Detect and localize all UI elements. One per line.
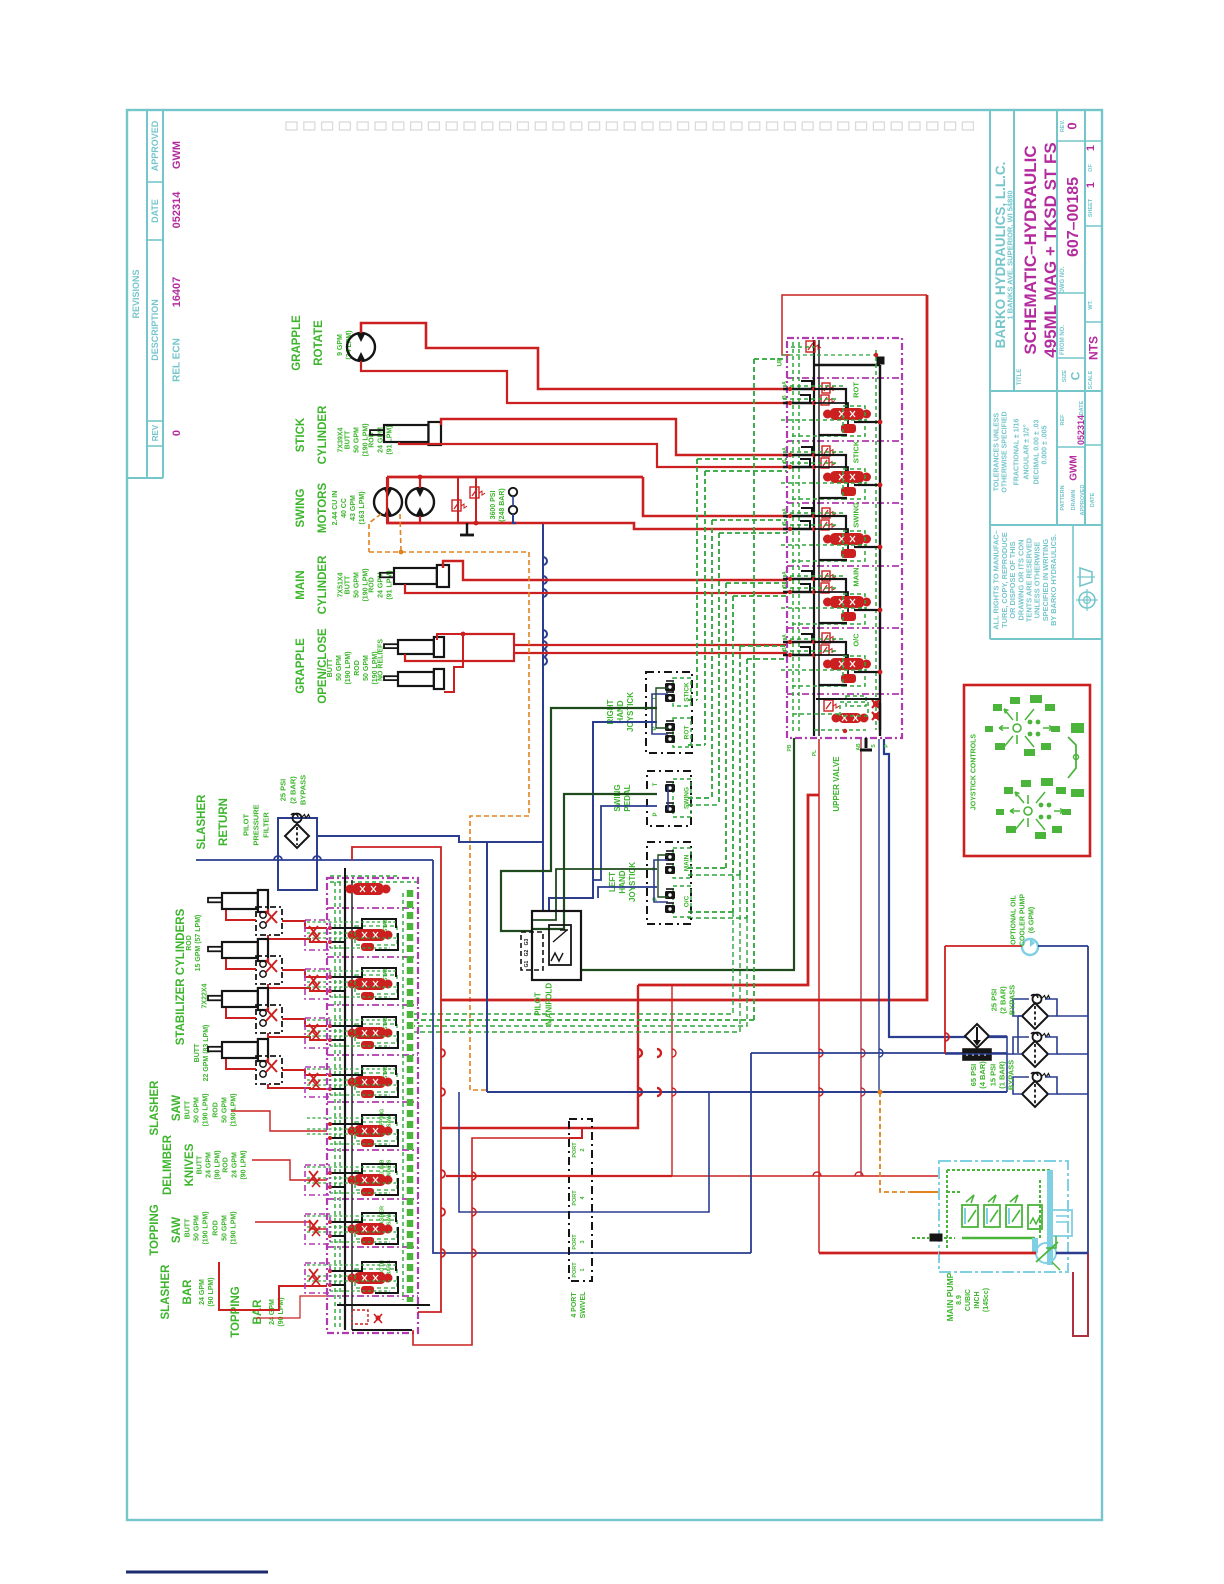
svg-text:GRAPPLE: GRAPPLE [291, 315, 303, 371]
svg-text:SWIVEL: SWIVEL [580, 1291, 587, 1319]
svg-text:RETURN: RETURN [218, 798, 230, 846]
svg-text:G1: G1 [524, 960, 530, 967]
svg-text:495ML MAG + TKSD ST FS: 495ML MAG + TKSD ST FS [1041, 142, 1060, 358]
svg-text:TITLE: TITLE [1017, 369, 1023, 386]
svg-text:A: A [782, 571, 788, 575]
svg-text:1 BANKS AVE. SUPERIOR, W: 1 BANKS AVE. SUPERIOR, WI 54880 [1006, 190, 1015, 319]
svg-text:PRESSURE: PRESSURE [252, 804, 261, 845]
svg-text:TOPPING: TOPPING [149, 1204, 161, 1256]
svg-text:PL: PL [812, 750, 818, 756]
svg-text:22 GPM (83 LPM): 22 GPM (83 LPM) [203, 1025, 210, 1082]
svg-text:16407: 16407 [171, 277, 183, 308]
svg-text:(190 LPM): (190 LPM) [231, 1093, 238, 1126]
svg-text:REF: REF [1060, 414, 1066, 426]
svg-text:BUTT: BUTT [194, 1043, 201, 1062]
svg-text:SWING: SWING [683, 787, 690, 809]
svg-text:ROD: ROD [354, 660, 361, 676]
svg-text:(90 LPM): (90 LPM) [208, 1277, 215, 1306]
svg-text:(91 LPM): (91 LPM) [387, 425, 394, 454]
svg-text:O/C: O/C [683, 895, 690, 907]
svg-text:A: A [782, 447, 788, 451]
svg-text:24 GPM: 24 GPM [269, 1299, 276, 1325]
svg-text:STICK: STICK [683, 682, 690, 702]
svg-text:OF: OF [1088, 164, 1094, 172]
svg-text:OPTIONAL OIL: OPTIONAL OIL [1011, 894, 1018, 944]
svg-text:A: A [782, 508, 788, 512]
svg-text:MAIN: MAIN [683, 854, 690, 871]
svg-text:DESCRIPTION: DESCRIPTION [150, 299, 160, 361]
svg-text:SLASHER: SLASHER [149, 1080, 161, 1136]
svg-text:HAND: HAND [616, 700, 625, 723]
svg-text:COOLER PUMP: COOLER PUMP [1020, 894, 1027, 946]
svg-text:052314: 052314 [171, 191, 183, 229]
svg-text:OTHERWISE SPECIFIED: OTHERWISE SPECIFIED [1002, 411, 1009, 492]
svg-text:BAR: BAR [252, 1299, 264, 1325]
svg-text:3: 3 [580, 1240, 586, 1243]
svg-text:(145cc): (145cc) [983, 1288, 990, 1312]
svg-text:KNIVES: KNIVES [184, 1143, 196, 1186]
svg-text:LEFT: LEFT [608, 872, 617, 892]
svg-text:REL ECN: REL ECN [172, 338, 183, 382]
svg-text:1: 1 [1085, 182, 1097, 188]
svg-text:BUTT: BUTT [185, 1218, 192, 1237]
svg-text:40 CC: 40 CC [341, 498, 348, 518]
svg-text:PORT: PORT [572, 1142, 578, 1158]
svg-text:UPPER VALVE: UPPER VALVE [832, 756, 841, 812]
svg-text:SLASHER: SLASHER [160, 1264, 172, 1320]
svg-text:RIGHT: RIGHT [606, 699, 615, 724]
svg-text:(2 BAR): (2 BAR) [289, 776, 298, 804]
svg-text:65 PSI: 65 PSI [969, 1064, 978, 1087]
svg-text:A: A [782, 634, 788, 638]
svg-text:JOYSTICK CONTROLS: JOYSTICK CONTROLS [971, 734, 978, 811]
svg-text:(90 LPM): (90 LPM) [241, 1150, 248, 1179]
svg-text:607–00185: 607–00185 [1065, 177, 1082, 257]
svg-text:0: 0 [1065, 122, 1080, 129]
svg-text:O/C: O/C [852, 633, 861, 647]
svg-text:PORT: PORT [572, 1190, 578, 1206]
svg-text:25 PSI: 25 PSI [990, 989, 999, 1012]
svg-text:PB: PB [787, 744, 793, 751]
svg-text:BUTT: BUTT [327, 658, 334, 677]
svg-text:(1 BAR): (1 BAR) [998, 1061, 1007, 1089]
svg-text:(90 LPM): (90 LPM) [215, 1150, 222, 1179]
svg-text:CUBIC: CUBIC [965, 1289, 972, 1311]
svg-text:DRAWN: DRAWN [1071, 490, 1077, 511]
svg-text:24 GPM: 24 GPM [378, 572, 385, 598]
svg-text:GRAPPLE: GRAPPLE [295, 638, 307, 694]
svg-text:25 PSI: 25 PSI [279, 779, 288, 802]
svg-text:052314: 052314 [1076, 415, 1086, 445]
svg-text:DATE: DATE [1090, 492, 1096, 507]
svg-text:A: A [782, 381, 788, 385]
svg-text:8.9: 8.9 [956, 1295, 963, 1305]
svg-text:1: 1 [580, 1268, 586, 1271]
svg-text:CYLINDER: CYLINDER [317, 405, 329, 464]
svg-text:(190 LPM): (190 LPM) [203, 1211, 210, 1244]
svg-text:24 GPM: 24 GPM [199, 1279, 206, 1305]
svg-text:REVISIONS: REVISIONS [131, 269, 141, 318]
svg-text:MANIFOLD: MANIFOLD [544, 983, 553, 1025]
svg-text:G2: G2 [524, 949, 530, 956]
svg-text:SCHEMATIC–HYDRAULIC: SCHEMATIC–HYDRAULIC [1021, 145, 1040, 354]
svg-text:7X39X4: 7X39X4 [338, 427, 345, 452]
svg-text:SCALE: SCALE [1088, 370, 1094, 389]
svg-text:BYPASS: BYPASS [1008, 985, 1017, 1015]
svg-text:0.000 ± .005: 0.000 ± .005 [1042, 425, 1049, 464]
svg-text:3600 PSI: 3600 PSI [490, 491, 497, 520]
svg-text:WT.: WT. [1088, 300, 1094, 310]
svg-text:BAR: BAR [182, 1279, 194, 1305]
svg-text:50 GPM: 50 GPM [222, 1097, 229, 1123]
svg-text:TOPPING: TOPPING [230, 1286, 242, 1338]
svg-text:ANGULAR ± 1/2°: ANGULAR ± 1/2° [1023, 424, 1031, 479]
svg-text:NTS: NTS [1086, 336, 1100, 360]
svg-text:50 GPM: 50 GPM [194, 1215, 201, 1241]
svg-text:JOYSTICK: JOYSTICK [626, 692, 635, 732]
svg-text:ROTATE: ROTATE [313, 320, 325, 366]
svg-text:GWM: GWM [171, 141, 183, 169]
svg-text:DELIMBER: DELIMBER [162, 1134, 174, 1195]
svg-text:24 GPM: 24 GPM [206, 1152, 213, 1178]
svg-text:PORT: PORT [572, 1234, 578, 1250]
svg-text:SLASHER: SLASHER [196, 794, 208, 850]
svg-text:ROD: ROD [213, 1102, 220, 1118]
svg-text:G3: G3 [524, 938, 530, 945]
svg-text:STABILIZER CYLINDERS: STABILIZER CYLINDERS [175, 908, 187, 1045]
svg-text:P: P [653, 812, 659, 816]
svg-text:ROD: ROD [213, 1220, 220, 1236]
svg-text:STICK: STICK [295, 417, 307, 452]
svg-text:BY BARKO HYDRAULICS.: BY BARKO HYDRAULICS. [1049, 534, 1058, 626]
svg-text:7X51X4: 7X51X4 [338, 572, 345, 597]
svg-text:2: 2 [580, 1148, 586, 1151]
svg-text:ROT: ROT [683, 726, 690, 740]
svg-text:SWING: SWING [852, 502, 861, 528]
svg-text:(2 BAR): (2 BAR) [999, 986, 1008, 1014]
svg-text:2.44 CU IN: 2.44 CU IN [332, 491, 339, 526]
svg-text:BUTT: BUTT [185, 1100, 192, 1119]
svg-text:SWING: SWING [613, 784, 622, 811]
svg-text:(248 BAR): (248 BAR) [499, 488, 506, 521]
svg-text:FRACTIONAL ± 1/16: FRACTIONAL ± 1/16 [1014, 419, 1021, 486]
svg-text:CYLINDER: CYLINDER [317, 555, 329, 614]
svg-text:JOYSTICK: JOYSTICK [628, 862, 637, 902]
svg-text:50 GPM: 50 GPM [336, 655, 343, 681]
svg-text:SAW: SAW [171, 1217, 183, 1243]
svg-text:(190 LPM): (190 LPM) [203, 1093, 210, 1126]
svg-text:(4 BAR): (4 BAR) [978, 1061, 987, 1089]
svg-text:APPROVED: APPROVED [1080, 485, 1086, 516]
svg-text:PILOT: PILOT [242, 814, 251, 837]
svg-text:ROT: ROT [852, 382, 861, 398]
svg-text:BUTT: BUTT [345, 430, 352, 449]
svg-text:SAW: SAW [171, 1095, 183, 1121]
svg-text:ROD: ROD [369, 577, 376, 593]
svg-text:(91 LPM): (91 LPM) [387, 570, 394, 599]
svg-text:1: 1 [1085, 145, 1097, 151]
svg-text:50 GPM: 50 GPM [222, 1215, 229, 1241]
svg-text:REV: REV [151, 424, 160, 441]
svg-text:DECIMAL 0.00 ± .03: DECIMAL 0.00 ± .03 [1034, 420, 1041, 485]
svg-text:BYPASS: BYPASS [299, 775, 308, 805]
svg-text:SIZE: SIZE [1062, 370, 1068, 383]
svg-text:DATE: DATE [150, 199, 160, 223]
svg-text:MOTORS: MOTORS [317, 483, 329, 534]
svg-text:FILTER: FILTER [262, 812, 271, 838]
svg-text:50 GPM: 50 GPM [354, 572, 361, 598]
svg-text:ROD: ROD [223, 1157, 230, 1173]
svg-text:STICK: STICK [852, 440, 861, 463]
svg-text:APPROVED: APPROVED [150, 120, 160, 171]
svg-text:9 GPM: 9 GPM [337, 334, 344, 356]
svg-text:50 GPM: 50 GPM [194, 1097, 201, 1123]
svg-text:T: T [652, 696, 658, 700]
svg-text:MAIN: MAIN [852, 567, 861, 586]
svg-text:(163 LPM): (163 LPM) [359, 491, 366, 524]
svg-text:FROM NO.: FROM NO. [1060, 325, 1066, 355]
svg-text:DATE: DATE [1079, 400, 1085, 415]
svg-text:15 PSI: 15 PSI [989, 1064, 998, 1087]
svg-text:24 GPM: 24 GPM [232, 1152, 239, 1178]
svg-text:BYPASS: BYPASS [1007, 1060, 1016, 1090]
svg-text:GWM: GWM [1069, 455, 1080, 481]
svg-text:(190 LPM): (190 LPM) [231, 1211, 238, 1244]
svg-text:MAIN PUMP: MAIN PUMP [945, 1272, 955, 1321]
svg-text:(6 GPM): (6 GPM) [1029, 907, 1036, 933]
svg-text:C: C [1068, 371, 1082, 380]
svg-text:HAND: HAND [618, 870, 627, 893]
svg-text:BUTT: BUTT [345, 575, 352, 594]
svg-text:4 PORT: 4 PORT [571, 1292, 578, 1318]
svg-text:0: 0 [171, 430, 183, 436]
svg-text:SHEET: SHEET [1088, 198, 1094, 217]
svg-text:(190 LPM): (190 LPM) [345, 651, 352, 684]
svg-text:50 GPM: 50 GPM [363, 655, 370, 681]
svg-text:SWING: SWING [295, 488, 307, 527]
svg-text:T: T [653, 782, 659, 786]
svg-text:PATTERN: PATTERN [1060, 485, 1066, 510]
svg-text:BUTT: BUTT [197, 1155, 204, 1174]
svg-text:50 GPM: 50 GPM [354, 427, 361, 453]
svg-text:15 GPM (57 LPM): 15 GPM (57 LPM) [195, 915, 202, 972]
svg-text:DWG NO.: DWG NO. [1060, 266, 1066, 293]
svg-text:PILOT: PILOT [533, 992, 542, 1016]
svg-text:TOLERANCES UNLESS: TOLERANCES UNLESS [994, 412, 1001, 491]
svg-text:INCH: INCH [974, 1291, 981, 1308]
svg-text:43 GPM: 43 GPM [350, 495, 357, 521]
svg-text:PORT: PORT [572, 1262, 578, 1278]
svg-text:PEDAL: PEDAL [623, 784, 632, 811]
svg-text:ROD: ROD [186, 935, 193, 951]
svg-text:MAIN: MAIN [295, 570, 307, 599]
